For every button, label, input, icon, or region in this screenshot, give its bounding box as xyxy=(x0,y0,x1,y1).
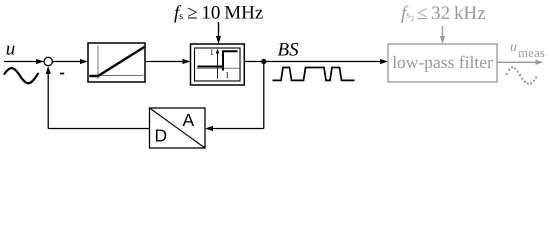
feedback wire down from BS node xyxy=(263,62,265,129)
comparator block U2 (outer frame) xyxy=(191,44,245,85)
svg-text:u: u xyxy=(6,39,16,60)
feedback wire to DA converter xyxy=(211,128,264,130)
integrator horizontal axis xyxy=(91,75,144,77)
wire u to summing junction xyxy=(4,61,38,63)
wire up to summing junction xyxy=(47,71,49,129)
comparator vertical axis with arrow xyxy=(217,52,219,79)
sample rate arrow into filter (gray) xyxy=(442,26,444,38)
DA diagonal xyxy=(150,108,206,148)
svg-text:A: A xyxy=(183,110,195,130)
minus sign xyxy=(60,73,64,75)
wire comparator to low-pass filter xyxy=(244,61,382,63)
svg-text:meas: meas xyxy=(518,46,545,60)
low-pass filter block (gray) xyxy=(388,44,497,82)
svg-text:fs≥ 10 MHz: fs≥ 10 MHz xyxy=(174,3,263,24)
clock arrow into comparator xyxy=(218,22,220,38)
feedback wire from DA to summing junction xyxy=(48,128,149,130)
comparator horizontal axis xyxy=(197,67,240,69)
junction dot BS node xyxy=(261,59,266,64)
comparator inner frame xyxy=(195,48,241,81)
input sine symbol xyxy=(5,68,39,83)
svg-text:u: u xyxy=(510,40,517,55)
svg-text:BS: BS xyxy=(278,40,300,61)
integrator ramp curve xyxy=(91,48,144,77)
comparator step characteristic xyxy=(198,51,238,66)
integrator block U1 xyxy=(88,43,145,82)
dotted output sine (gray) xyxy=(505,66,537,84)
integrator vertical axis xyxy=(97,46,99,80)
summing junction xyxy=(44,57,52,65)
svg-text:D: D xyxy=(155,126,168,146)
svg-text:low-pass filter: low-pass filter xyxy=(392,52,493,72)
bitstream waveform xyxy=(273,68,355,81)
DA converter block xyxy=(150,108,206,148)
wire integrator to comparator xyxy=(145,61,185,63)
output wire u_meas (gray) xyxy=(497,61,536,63)
svg-text:1: 1 xyxy=(210,47,214,57)
svg-text:1: 1 xyxy=(225,70,229,80)
wire junction to integrator xyxy=(52,61,82,63)
